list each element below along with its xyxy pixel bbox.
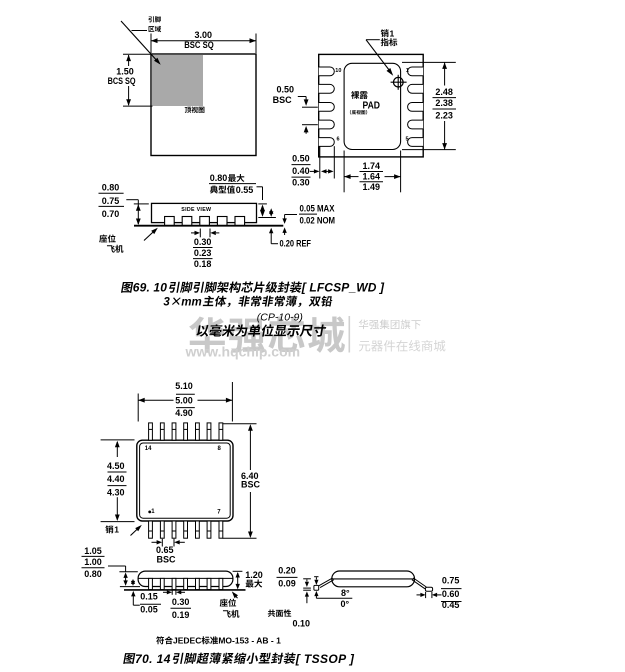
LFCSP bottom view package outline	[319, 54, 424, 156]
svg-text:0.15: 0.15	[140, 592, 158, 602]
leader tick for pin1 area label	[132, 30, 148, 32]
0.50 BSC leader and arrows	[298, 96, 306, 98]
svg-text:BCS SQ: BCS SQ	[108, 76, 136, 86]
label pin1 area 引脚/区域	[148, 16, 160, 22]
svg-text:JEDEC: JEDEC	[173, 636, 201, 646]
TSSOP bottom pin 2	[160, 521, 164, 538]
dimension 0.20 REF	[269, 228, 273, 234]
TSSOP top pin 14	[149, 423, 153, 440]
pin 1 chamfer shaded area	[152, 55, 203, 106]
TSSOP side lead 1	[149, 578, 153, 589]
svg-text:mm: mm	[181, 297, 201, 309]
svg-text:2.48: 2.48	[435, 87, 453, 97]
svg-text:0.45: 0.45	[442, 600, 460, 610]
dimension 3.00 BSC SQ extension lines	[150, 34, 152, 54]
svg-text:BSC: BSC	[241, 480, 261, 490]
left pin 10	[319, 67, 335, 76]
second arrow pair body thickness	[131, 579, 135, 584]
exposed pad outline	[344, 63, 401, 149]
label top view 顶视图	[185, 107, 205, 113]
TSSOP side view body	[138, 571, 233, 586]
svg-text:BSC: BSC	[156, 555, 176, 565]
coplanarity arrows and ticks	[303, 578, 311, 580]
foot length arrows	[425, 592, 427, 598]
dimension 0.30/0.19 lead width	[171, 590, 173, 595]
TSSOP seating plane leader arrow	[234, 594, 238, 599]
svg-text:10: 10	[335, 68, 341, 74]
svg-text:0.80: 0.80	[102, 182, 120, 192]
svg-text:0.10: 0.10	[293, 618, 311, 628]
svg-text:0.40: 0.40	[292, 166, 310, 176]
TSSOP side lead 2	[160, 578, 164, 589]
dimension 0.15/0.05	[131, 591, 135, 597]
TSSOP top pin 13	[160, 423, 164, 440]
label 销1 指标 pin1 indicator	[381, 29, 389, 37]
svg-text:0.80: 0.80	[210, 173, 228, 183]
dimension 6.40 extension lines	[223, 423, 257, 425]
caption line 以毫米为单位显示尺寸	[196, 324, 327, 336]
TSSOP top pin 10	[196, 423, 200, 440]
TSSOP bottom pin 3	[172, 521, 176, 538]
svg-text:1.74: 1.74	[363, 161, 381, 171]
TSSOP side lead 4	[184, 578, 188, 589]
LFCSP top view package outline	[151, 54, 256, 156]
seating plane line	[134, 225, 283, 227]
right pin 3	[408, 103, 424, 112]
pin 1 indicator circle with cross	[394, 77, 404, 87]
svg-text:0.19: 0.19	[172, 610, 190, 620]
watermark 华强芯城	[189, 316, 345, 353]
svg-text:0°: 0°	[340, 599, 349, 609]
seating plane leader arrow	[144, 230, 156, 241]
side view terminal 1	[165, 217, 175, 226]
TSSOP bottom pin 4	[184, 521, 188, 538]
body bottom extension tick	[120, 586, 140, 588]
TSSOP top pin 9	[207, 423, 211, 440]
svg-text:www.hqchip.com: www.hqchip.com	[185, 344, 301, 360]
left pin 9	[319, 84, 335, 93]
TSSOP side lead 5	[196, 578, 200, 589]
watermark 华强集团旗下	[359, 319, 421, 329]
side view terminal 2	[182, 217, 192, 226]
svg-text:0.30: 0.30	[172, 597, 190, 607]
svg-text:5: 5	[406, 137, 409, 143]
dimension 1.50 line with arrows	[128, 55, 130, 66]
dimension 5.10 extension lines	[137, 394, 139, 422]
svg-text:0.70: 0.70	[102, 209, 120, 219]
right pin 4	[408, 120, 424, 129]
dimension 3.00 BSC SQ line with arrows	[151, 40, 256, 42]
svg-text:8°: 8°	[341, 588, 350, 598]
TSSOP top view body outline	[137, 440, 233, 521]
label 共面性 0.10 coplanarity	[268, 609, 291, 617]
side view terminal 3	[200, 217, 210, 226]
svg-text:BSC SQ: BSC SQ	[184, 40, 214, 50]
svg-text:0.75: 0.75	[442, 576, 460, 586]
caption 图70 TSSOP	[123, 653, 135, 664]
svg-text:4.40: 4.40	[107, 474, 125, 484]
dimension 1.74/1.64/1.49 extension lines	[343, 151, 345, 193]
svg-text:70. 14: 70. 14	[135, 652, 171, 666]
svg-text:[ TSSOP ]: [ TSSOP ]	[295, 652, 355, 666]
caption line 图69 LFCSP_WD	[121, 282, 133, 293]
TSSOP bottom pin 5	[196, 521, 200, 538]
terminal length dimension arrows	[319, 146, 321, 178]
svg-text:0.09: 0.09	[278, 578, 296, 588]
leader arrow from 销1 label to indicator	[366, 39, 380, 41]
svg-text:SIDE VIEW: SIDE VIEW	[181, 207, 211, 213]
1.05 dimension leader and arrows	[108, 565, 126, 567]
svg-text:0.30: 0.30	[292, 178, 310, 188]
svg-text:2.38: 2.38	[435, 98, 453, 108]
svg-text:4.50: 4.50	[107, 461, 125, 471]
TSSOP top pin 12	[172, 423, 176, 440]
label 座位 飞机 seating plane	[99, 234, 115, 242]
svg-text:4.90: 4.90	[175, 408, 193, 418]
dimension 2.48/2.38/2.23 extension lines	[402, 61, 456, 63]
leader arrow into chamfer area	[121, 21, 159, 63]
dimension 2.48/2.38/2.23 line with arrows	[444, 62, 446, 85]
svg-text:1.49: 1.49	[363, 182, 381, 192]
side view terminal 5	[235, 217, 245, 226]
second dimension arrow pair	[269, 208, 273, 214]
svg-text:1: 1	[390, 28, 395, 38]
svg-text:0.18: 0.18	[194, 259, 212, 269]
svg-text:1.64: 1.64	[363, 171, 381, 181]
svg-text:5.00: 5.00	[175, 396, 193, 406]
svg-text:1: 1	[114, 525, 119, 535]
TSSOP profile body	[332, 571, 415, 587]
dimension 4.50 line with arrows	[116, 442, 118, 457]
dimension 8°/0° leader	[316, 597, 352, 599]
svg-text:1: 1	[406, 68, 409, 74]
svg-text:1.05: 1.05	[84, 546, 102, 556]
svg-text:0.05: 0.05	[140, 604, 158, 614]
left pin 6	[319, 138, 335, 147]
svg-text:6: 6	[337, 137, 340, 143]
side view terminal 4	[217, 217, 227, 226]
label 座位 飞机 TSSOP seating plane	[220, 599, 236, 607]
svg-text:PAD: PAD	[363, 100, 381, 111]
left formed lead	[319, 578, 333, 586]
TSSOP top pin 11	[184, 423, 188, 440]
left lead thickness arrows	[314, 576, 318, 578]
svg-text:0.02 NOM: 0.02 NOM	[300, 216, 336, 226]
terminal width ticks and arrows	[199, 229, 201, 238]
svg-text:4.30: 4.30	[107, 488, 125, 498]
svg-text:0.60: 0.60	[442, 589, 460, 599]
dimension 4.50 extension lines	[101, 439, 135, 441]
dimension 6.40 line with arrows	[249, 426, 251, 471]
exposed pad label 裸露 PAD	[351, 91, 368, 99]
svg-text:1.00: 1.00	[84, 557, 102, 567]
watermark divider bar	[348, 316, 350, 353]
right pin 2	[408, 84, 424, 93]
dimension 1.20 最大	[233, 570, 243, 572]
svg-text:0.55: 0.55	[236, 185, 254, 195]
svg-text:MO-153 - AB - 1: MO-153 - AB - 1	[218, 636, 281, 646]
svg-text:0.05 MAX: 0.05 MAX	[300, 204, 335, 214]
svg-text:0.20: 0.20	[278, 565, 296, 575]
svg-text:3.00: 3.00	[195, 30, 213, 40]
svg-text:0.23: 0.23	[194, 248, 212, 258]
dimension 5.10 line with arrows	[138, 399, 173, 401]
caption JEDEC compliance	[156, 636, 173, 644]
0.80/0.75/0.70 dimension leader and arrows	[126, 199, 138, 201]
TSSOP top pin 8	[219, 423, 223, 440]
TSSOP bottom pin 6	[207, 521, 211, 538]
svg-text:2.23: 2.23	[435, 111, 453, 121]
label 销1 TSSOP pin 1	[105, 525, 113, 533]
TSSOP bottom pin 1	[149, 521, 153, 538]
TSSOP bottom pin 7	[219, 521, 223, 538]
body top extension tick	[119, 571, 137, 573]
svg-text:0.75: 0.75	[102, 196, 120, 206]
dimension 1.74/1.64/1.49 line with arrows	[344, 176, 358, 178]
svg-text:0.50: 0.50	[276, 84, 294, 94]
svg-text:0.80: 0.80	[84, 569, 102, 579]
dimension 0.65 BSC	[161, 539, 163, 547]
watermark 元器件在线商城	[359, 340, 446, 352]
right formed lead	[413, 578, 426, 587]
TSSOP side lead 3	[172, 578, 176, 589]
svg-text:0.20 REF: 0.20 REF	[280, 238, 312, 248]
销1 leader arrow	[131, 527, 140, 536]
TSSOP side lead 7	[219, 578, 223, 589]
svg-text:0.65: 0.65	[156, 545, 174, 555]
0.80max/0.55typ dimension arrows	[257, 186, 263, 188]
TSSOP side lead 6	[207, 578, 211, 589]
right pin 1	[408, 67, 424, 76]
svg-text:BSC: BSC	[273, 95, 293, 105]
left pin 8	[319, 103, 335, 112]
svg-text:69. 10: 69. 10	[133, 281, 167, 295]
svg-text:0.30: 0.30	[194, 237, 212, 247]
dimension 0.05 MAX / 0.02 NOM	[285, 214, 297, 216]
svg-text:(CP-10-9): (CP-10-9)	[257, 311, 303, 323]
svg-text:5.10: 5.10	[175, 381, 193, 391]
dimension 1.50 extension ticks	[123, 53, 151, 55]
left pin 7	[319, 120, 335, 129]
svg-text:14: 14	[145, 446, 152, 452]
svg-text:1.20: 1.20	[245, 570, 263, 580]
svg-text:3: 3	[163, 297, 170, 309]
right pin 5	[408, 138, 424, 147]
LFCSP side view body	[152, 203, 257, 222]
svg-text:0.50: 0.50	[292, 154, 310, 164]
svg-text:[ LFCSP_WD ]: [ LFCSP_WD ]	[301, 281, 385, 295]
TSSOP seating plane line	[124, 589, 246, 591]
